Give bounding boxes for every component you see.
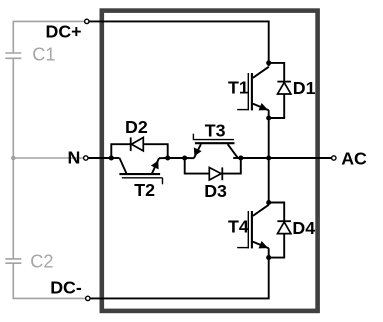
node T3 left junction [182, 155, 187, 160]
wire AC output [269, 157, 334, 159]
diode D4 [269, 203, 291, 258]
svg-text:DC+: DC+ [46, 22, 82, 42]
node T1 bottom junction [266, 115, 271, 120]
node AC midpoint junction [266, 155, 271, 160]
svg-text:T2: T2 [134, 180, 155, 200]
svg-text:T4: T4 [228, 217, 249, 237]
capacitor C1 [5, 53, 21, 58]
node T4 bottom junction [266, 255, 271, 260]
DC-link gray rail middle segment [12, 58, 14, 259]
node T4 top junction [266, 200, 271, 205]
svg-text:C1: C1 [32, 45, 55, 65]
diode D2 [111, 137, 167, 158]
wire midpoint vertical T1 to T4 [268, 118, 270, 203]
wire T3 to midpoint [241, 157, 269, 159]
DC-link gray rail top segment [13, 21, 84, 53]
svg-text:DC-: DC- [50, 278, 82, 298]
node DC+ terminal [85, 19, 89, 23]
wire N terminal into box [86, 157, 112, 159]
transistor T4 (IGBT) [237, 205, 269, 258]
transistor T1 (IGBT) [237, 67, 269, 118]
svg-text:AC: AC [341, 149, 367, 169]
node T3 right junction [238, 155, 243, 160]
module box [102, 11, 318, 311]
svg-text:T1: T1 [228, 78, 249, 98]
transistor T3 (IGBT) [185, 134, 241, 159]
svg-text:D1: D1 [293, 78, 316, 98]
node T2 left junction [109, 155, 114, 160]
svg-text:D2: D2 [125, 117, 148, 137]
svg-text:D4: D4 [292, 218, 315, 238]
gray junction dot on rail at N [11, 156, 16, 161]
node DC- terminal [86, 296, 90, 300]
node AC terminal [332, 156, 336, 160]
node N terminal [84, 156, 88, 160]
wire DC+ terminal to T1 collector [87, 21, 269, 66]
svg-text:T3: T3 [205, 121, 226, 141]
svg-text:D3: D3 [204, 181, 227, 201]
svg-text:C2: C2 [30, 252, 53, 272]
node T1 top junction [266, 60, 271, 65]
svg-text:N: N [68, 148, 81, 168]
capacitor C2 [5, 259, 21, 263]
diode D3 [185, 158, 241, 180]
DC-link gray rail bottom segment [13, 263, 85, 298]
wire T2 to T3 [168, 157, 185, 159]
diode D1 [269, 63, 291, 118]
node T2 right junction [165, 155, 170, 160]
wire DC- terminal to T4 emitter [88, 258, 269, 299]
transistor T2 (IGBT) [111, 158, 167, 184]
gray N wire [13, 157, 83, 159]
